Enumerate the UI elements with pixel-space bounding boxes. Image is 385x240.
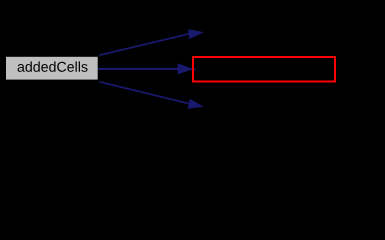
node addedCells (current node, grey fill) bbox=[6, 57, 98, 80]
node (red highlighted, empty) bbox=[193, 57, 335, 82]
wire: middle edge (arrow to red node) bbox=[98, 63, 196, 74]
wire: top edge (arrow up-right) bbox=[99, 29, 204, 55]
wire: bottom edge (arrow down-right) bbox=[99, 82, 203, 109]
